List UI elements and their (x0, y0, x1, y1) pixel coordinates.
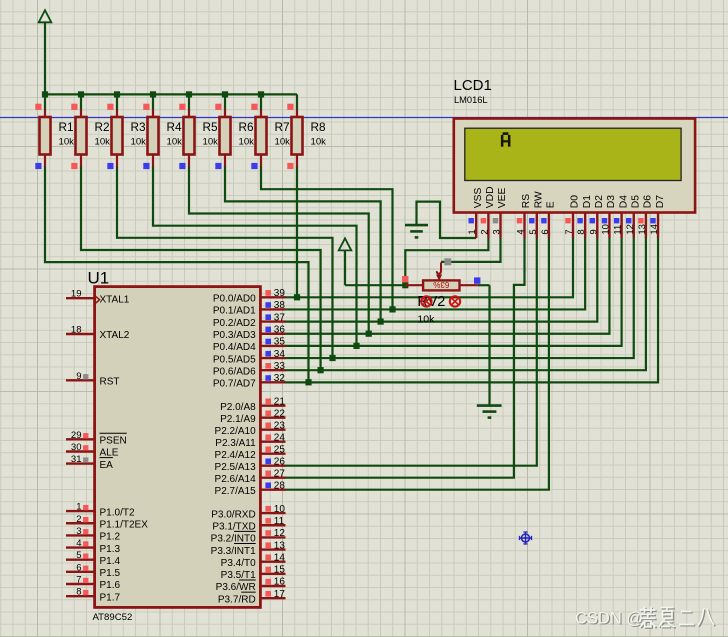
svg-text:P1.1/T2EX: P1.1/T2EX (100, 519, 149, 530)
svg-text:LCD1: LCD1 (454, 77, 492, 94)
svg-text:10k: 10k (275, 136, 291, 147)
svg-text:13: 13 (637, 224, 648, 235)
svg-text:R4: R4 (167, 120, 183, 134)
svg-text:33: 33 (274, 361, 286, 372)
svg-text:23: 23 (274, 420, 286, 431)
svg-text:10k: 10k (95, 136, 111, 147)
svg-text:18: 18 (71, 325, 82, 336)
svg-text:XTAL2: XTAL2 (100, 330, 130, 341)
svg-text:12: 12 (274, 528, 286, 539)
svg-text:10: 10 (601, 224, 612, 235)
svg-text:D7: D7 (655, 195, 666, 208)
svg-text:13: 13 (274, 540, 286, 551)
svg-text:VEE: VEE (497, 187, 508, 208)
svg-text:10k: 10k (203, 136, 219, 147)
svg-text:9: 9 (588, 229, 599, 234)
svg-text:10k: 10k (417, 313, 435, 325)
svg-text:32: 32 (274, 373, 286, 384)
svg-text:P1.6: P1.6 (100, 580, 121, 591)
svg-text:P0.5/AD5: P0.5/AD5 (213, 354, 256, 365)
svg-text:2: 2 (479, 229, 490, 234)
svg-text:5: 5 (76, 550, 81, 561)
svg-text:4: 4 (516, 229, 527, 234)
svg-text:3: 3 (492, 229, 503, 234)
svg-text:P0.6/AD6: P0.6/AD6 (213, 366, 256, 377)
svg-text:VSS: VSS (473, 187, 484, 208)
svg-text:P3.1/TXD: P3.1/TXD (212, 521, 255, 532)
svg-text:P3.2/INT0: P3.2/INT0 (211, 534, 256, 545)
svg-text:14: 14 (649, 224, 660, 235)
svg-text:PSEN: PSEN (100, 436, 127, 447)
svg-text:RST: RST (100, 377, 120, 388)
svg-text:RS: RS (521, 194, 532, 208)
svg-text:5: 5 (528, 229, 539, 234)
svg-text:P1.5: P1.5 (100, 568, 121, 579)
svg-text:27: 27 (274, 468, 286, 479)
svg-text:10k: 10k (167, 136, 183, 147)
svg-text:P2.3/A11: P2.3/A11 (215, 438, 256, 449)
svg-text:P1.3: P1.3 (100, 544, 121, 555)
svg-text:16: 16 (274, 577, 286, 588)
svg-text:15: 15 (274, 565, 286, 576)
svg-text:D5: D5 (631, 195, 642, 208)
svg-text:P3.0/RXD: P3.0/RXD (211, 509, 255, 520)
svg-text:P3.3/INT1: P3.3/INT1 (211, 546, 256, 557)
svg-text:P0.0/AD0: P0.0/AD0 (213, 294, 256, 305)
svg-text:XTAL1: XTAL1 (100, 294, 130, 305)
svg-text:10k: 10k (131, 136, 147, 147)
svg-text:R6: R6 (239, 120, 255, 134)
svg-text:P1.2: P1.2 (100, 532, 121, 543)
svg-text:24: 24 (274, 432, 286, 443)
svg-text:EA: EA (100, 460, 114, 471)
svg-text:2: 2 (76, 514, 81, 525)
svg-text:39: 39 (274, 288, 286, 299)
svg-text:RW: RW (534, 191, 545, 208)
svg-text:6: 6 (540, 229, 551, 234)
svg-text:P2.6/A14: P2.6/A14 (215, 474, 257, 485)
svg-text:7: 7 (564, 229, 575, 234)
svg-text:19: 19 (71, 289, 82, 300)
svg-text:P2.0/A8: P2.0/A8 (220, 402, 256, 413)
svg-text:11: 11 (274, 516, 285, 527)
svg-text:37: 37 (274, 312, 286, 323)
svg-text:17: 17 (274, 589, 286, 600)
svg-text:P3.7/RD: P3.7/RD (218, 594, 256, 605)
svg-text:10k: 10k (311, 136, 327, 147)
svg-text:14: 14 (274, 552, 286, 563)
svg-text:P3.5/T1: P3.5/T1 (221, 570, 256, 581)
svg-text:P0.7/AD7: P0.7/AD7 (213, 379, 256, 390)
svg-text:U1: U1 (88, 269, 110, 288)
svg-text:31: 31 (71, 454, 82, 465)
svg-text:D6: D6 (643, 195, 654, 208)
svg-text:1: 1 (467, 229, 478, 234)
svg-text:9: 9 (76, 371, 81, 382)
svg-text:35: 35 (274, 337, 286, 348)
svg-text:AT89C52: AT89C52 (93, 612, 133, 623)
svg-text:D4: D4 (618, 195, 629, 208)
svg-text:R7: R7 (275, 120, 290, 134)
svg-text:10k: 10k (239, 136, 255, 147)
svg-text:D0: D0 (570, 195, 581, 208)
svg-text:R3: R3 (131, 120, 147, 134)
svg-text:10: 10 (274, 504, 286, 515)
svg-text:P0.2/AD2: P0.2/AD2 (213, 318, 256, 329)
svg-text:P3.4/T0: P3.4/T0 (221, 558, 256, 569)
svg-text:8: 8 (76, 587, 81, 598)
svg-text:P1.0/T2: P1.0/T2 (100, 507, 135, 518)
svg-text:P2.4/A12: P2.4/A12 (215, 450, 257, 461)
svg-text:P1.7: P1.7 (100, 592, 121, 603)
svg-text:E: E (546, 201, 557, 208)
svg-text:P0.1/AD1: P0.1/AD1 (213, 306, 256, 317)
svg-text:P2.2/A10: P2.2/A10 (215, 426, 257, 437)
svg-text:7: 7 (76, 575, 81, 586)
svg-text:12: 12 (625, 224, 636, 235)
svg-text:1: 1 (76, 502, 81, 513)
svg-text:30: 30 (71, 442, 82, 453)
svg-text:4: 4 (76, 538, 81, 549)
svg-text:26: 26 (274, 456, 286, 467)
svg-text:P3.6/WR: P3.6/WR (216, 582, 256, 593)
svg-text:D3: D3 (606, 195, 617, 208)
svg-text:P1.4: P1.4 (100, 556, 121, 567)
svg-text:ALE: ALE (100, 448, 119, 459)
svg-text:R5: R5 (203, 120, 219, 134)
svg-text:25: 25 (274, 444, 286, 455)
svg-text:R2: R2 (95, 120, 110, 134)
svg-text:28: 28 (274, 480, 286, 491)
svg-text:22: 22 (274, 408, 286, 419)
svg-text:10k: 10k (59, 136, 75, 147)
svg-text:R8: R8 (311, 120, 327, 134)
svg-text:36: 36 (274, 324, 286, 335)
svg-text:R1: R1 (59, 120, 74, 134)
svg-text:P0.4/AD4: P0.4/AD4 (213, 342, 256, 353)
svg-text:29: 29 (71, 430, 82, 441)
svg-text:P2.1/A9: P2.1/A9 (220, 414, 256, 425)
svg-text:34: 34 (274, 349, 286, 360)
svg-text:D2: D2 (594, 195, 605, 208)
svg-text:VDD: VDD (485, 186, 496, 208)
svg-text:P0.3/AD3: P0.3/AD3 (213, 330, 256, 341)
svg-text:63%: 63% (433, 280, 449, 289)
svg-text:11: 11 (613, 225, 624, 235)
svg-text:P2.5/A13: P2.5/A13 (215, 462, 257, 473)
svg-text:3: 3 (76, 526, 81, 537)
svg-text:6: 6 (76, 562, 81, 573)
svg-text:LM016L: LM016L (454, 95, 488, 105)
svg-text:21: 21 (274, 396, 286, 407)
svg-text:D1: D1 (582, 195, 593, 208)
svg-text:8: 8 (576, 229, 587, 234)
svg-text:CSDN @: CSDN @ (575, 610, 643, 628)
svg-text:P2.7/A15: P2.7/A15 (215, 486, 257, 497)
svg-text:38: 38 (274, 300, 286, 311)
